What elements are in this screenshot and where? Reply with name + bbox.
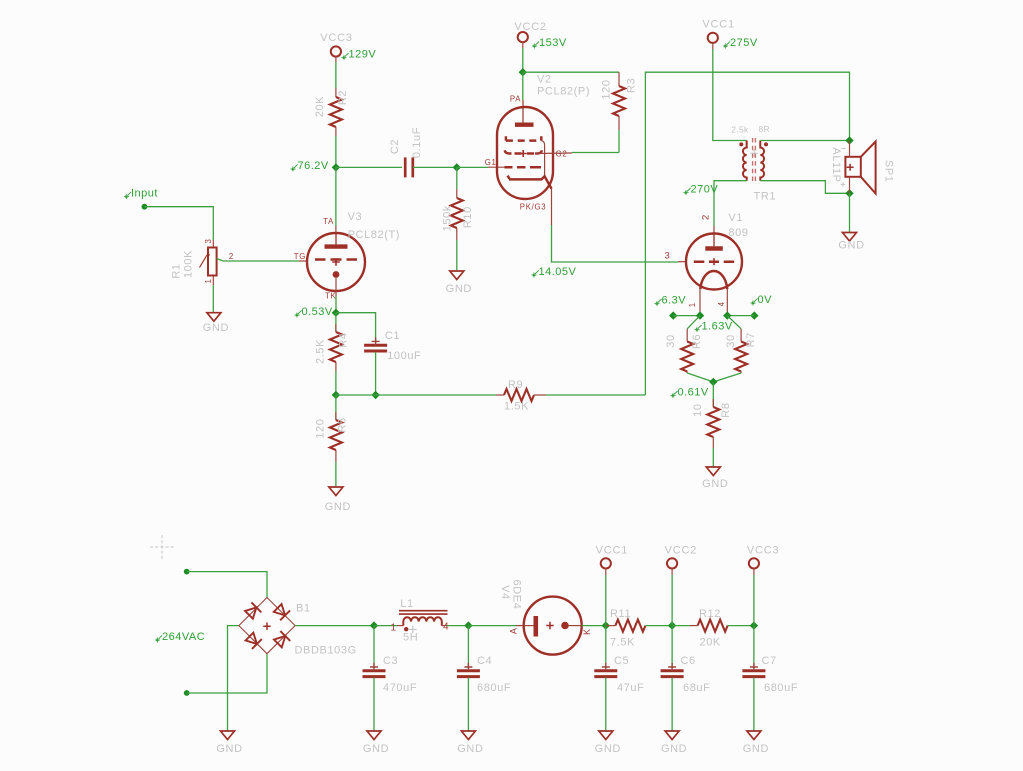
svg-text:2: 2 xyxy=(701,214,712,220)
V2 grid G1 row xyxy=(505,166,542,169)
svg-text:K: K xyxy=(582,628,592,635)
node 0V xyxy=(750,294,772,306)
V2 cathode pin lead xyxy=(551,189,553,225)
junction speaker top node xyxy=(845,136,853,144)
svg-text:VCC2: VCC2 xyxy=(514,21,547,33)
pin lead L1 pin1 xyxy=(397,625,403,627)
wire node to R10 xyxy=(456,167,458,189)
svg-text:GND: GND xyxy=(325,501,351,513)
svg-text:680uF: 680uF xyxy=(477,682,511,694)
resistor R9 xyxy=(504,389,534,401)
wire C3 to GND xyxy=(373,678,375,732)
diode B1 bottom-left xyxy=(245,632,262,649)
supply VCC3 output xyxy=(747,545,780,569)
svg-text:TR1: TR1 xyxy=(754,191,777,203)
svg-text:3: 3 xyxy=(204,238,213,243)
pin lead V1 pin3 xyxy=(678,261,686,263)
svg-text:AL11P: AL11P xyxy=(830,147,842,182)
V2 origin cross xyxy=(520,150,527,157)
svg-text:R11: R11 xyxy=(610,608,631,620)
wire R2 to node 76.2V xyxy=(335,136,337,167)
resistor R8 xyxy=(707,407,719,437)
svg-text:GND: GND xyxy=(363,743,389,755)
wire V3 cathode to node xyxy=(335,296,337,313)
wire C1 to node xyxy=(375,352,377,395)
pin lead R5 top xyxy=(335,412,337,420)
SP1 polarity small marks xyxy=(842,148,846,150)
wire node to C5 xyxy=(605,626,607,668)
svg-text:C2: C2 xyxy=(389,139,401,154)
svg-text:GND: GND xyxy=(702,478,728,490)
wire node to C3 xyxy=(373,626,375,668)
node 275V xyxy=(723,37,758,49)
supply VCC1 xyxy=(702,19,735,43)
svg-text:100uF: 100uF xyxy=(387,350,421,362)
V1 origin cross xyxy=(713,258,715,265)
node 0.61V xyxy=(670,387,709,399)
svg-text:V2: V2 xyxy=(537,74,552,86)
V4 anode plate xyxy=(533,616,538,637)
wire 6.3V stub xyxy=(673,315,700,317)
V1 grid row xyxy=(694,260,734,263)
svg-text:2.5K: 2.5K xyxy=(315,339,327,364)
node 153V xyxy=(532,37,567,49)
svg-text:7.5K: 7.5K xyxy=(610,636,635,648)
wire node to C6 xyxy=(671,626,673,668)
svg-text:5H: 5H xyxy=(403,632,418,644)
triode tube V3 envelope xyxy=(307,233,365,291)
pin lead V3 TA xyxy=(335,226,337,233)
node 6.3V xyxy=(654,295,686,307)
pin lead R6 bottom xyxy=(686,372,688,374)
resistor R12 xyxy=(698,620,728,632)
svg-text:TG: TG xyxy=(294,252,306,261)
svg-text:R6: R6 xyxy=(691,334,703,349)
svg-text:3: 3 xyxy=(665,251,671,262)
svg-text:GND: GND xyxy=(446,283,472,295)
svg-text:153V: 153V xyxy=(539,37,567,49)
svg-text:A: A xyxy=(509,627,519,634)
pin lead R4 top xyxy=(335,324,337,332)
L1 core lines xyxy=(399,611,448,614)
svg-text:C4: C4 xyxy=(477,655,492,667)
capacitor C5 xyxy=(594,663,617,677)
svg-text:0V: 0V xyxy=(758,294,773,306)
wire 0V stub xyxy=(727,315,754,317)
resistor R2 xyxy=(330,97,342,127)
svg-text:GND: GND xyxy=(457,743,483,755)
wire speaker to GND xyxy=(849,193,851,232)
V4 origin cross xyxy=(546,622,553,629)
capacitor C7 xyxy=(742,663,765,677)
wire R11 to VCC2 node xyxy=(645,625,672,627)
svg-text:100K: 100K xyxy=(183,250,195,278)
svg-text:30: 30 xyxy=(665,334,677,347)
node AC2 wire-end dot xyxy=(184,690,190,696)
svg-text:C7: C7 xyxy=(762,655,777,667)
node AC1 wire-end dot xyxy=(184,569,190,575)
resistor R3 xyxy=(613,86,625,116)
svg-text:120: 120 xyxy=(601,79,613,99)
svg-text:10: 10 xyxy=(692,403,704,416)
pin lead R2 top xyxy=(335,88,337,97)
junction VCC1 node xyxy=(602,621,610,629)
wire node to C4 xyxy=(467,626,469,668)
junction V1 pin1 xyxy=(696,311,704,319)
pentode tube V2 envelope xyxy=(497,107,553,199)
V2 G2 pin lead xyxy=(535,152,572,155)
supply VCC2 output xyxy=(665,545,698,569)
junction node 0.53V xyxy=(332,309,340,317)
resistor R5 xyxy=(330,420,342,450)
wire R10 to GND xyxy=(456,240,458,271)
svg-text:47uF: 47uF xyxy=(617,682,644,694)
svg-text:V4: V4 xyxy=(499,585,511,600)
resistor R7 xyxy=(735,342,747,372)
resistor R11 xyxy=(615,620,645,632)
junction C3 node xyxy=(370,621,378,629)
pin lead R10 top xyxy=(456,189,458,198)
pin lead R6 top xyxy=(686,329,688,342)
V2 grid G2 row xyxy=(505,150,542,153)
capacitor C6 xyxy=(661,663,684,677)
pin lead V2 PA xyxy=(522,100,524,123)
pin lead V1 pin2 xyxy=(713,226,715,234)
wire node to C1 xyxy=(336,313,376,341)
supply VCC2 xyxy=(514,21,547,42)
wire VCC3 to R2 xyxy=(335,62,337,88)
wire V1 pin1 to R6 xyxy=(687,316,700,329)
V3 cathode dot xyxy=(333,271,340,278)
pin lead R3 top xyxy=(618,72,620,86)
junction C4 node xyxy=(464,621,472,629)
svg-text:680uF: 680uF xyxy=(764,682,798,694)
V3 grid row xyxy=(315,258,357,261)
node 1.63V xyxy=(694,321,733,333)
wire AC2 to bridge bottom xyxy=(187,654,267,693)
V2 cathode xyxy=(508,176,552,189)
supply VCC3 xyxy=(320,32,353,57)
svg-text:C1: C1 xyxy=(385,330,400,342)
svg-text:8R: 8R xyxy=(759,124,770,134)
pin lead SP1 bottom xyxy=(849,177,851,194)
resistor R10 xyxy=(451,198,463,228)
svg-text:76.2V: 76.2V xyxy=(298,160,329,172)
wire Input to R1 xyxy=(144,207,213,240)
wire VCC1 to node xyxy=(605,575,607,626)
svg-text:B1: B1 xyxy=(296,603,311,615)
wire node to C2 xyxy=(336,166,402,168)
svg-text:120: 120 xyxy=(315,419,327,439)
svg-text:809: 809 xyxy=(728,227,748,239)
pin lead R2 bottom xyxy=(335,127,337,136)
svg-text:6.3V: 6.3V xyxy=(662,295,687,307)
pin lead V2 G1 xyxy=(488,166,505,168)
svg-text:0.53V: 0.53V xyxy=(302,306,333,318)
ground under C6 xyxy=(661,731,687,755)
capacitor C3 xyxy=(363,663,386,677)
wire VCC3 to node xyxy=(753,575,755,626)
capacitor C4 xyxy=(457,663,480,677)
node 0V wire-end dot xyxy=(750,311,758,319)
svg-text:R8: R8 xyxy=(720,402,732,417)
node Input wire-end dot xyxy=(142,204,148,210)
svg-text:4: 4 xyxy=(717,301,726,306)
svg-text:VCC2: VCC2 xyxy=(665,545,698,557)
svg-text:Input: Input xyxy=(131,188,158,200)
speaker SP1 xyxy=(845,142,875,194)
pin lead R1 pin1 xyxy=(212,276,214,286)
B1 plus mark xyxy=(263,623,270,630)
svg-text:R4: R4 xyxy=(338,332,350,347)
ground under R10 xyxy=(446,271,472,295)
junction node 76.2V xyxy=(332,163,340,171)
svg-text:R9: R9 xyxy=(508,379,523,391)
svg-text:GND: GND xyxy=(661,743,687,755)
wire node to C7 xyxy=(753,626,755,668)
wire TR1 secondary top to speaker xyxy=(760,140,849,142)
pin lead R8 top xyxy=(712,399,714,407)
pin lead V4 A xyxy=(516,625,524,627)
svg-text:R5: R5 xyxy=(337,417,349,432)
svg-text:G2: G2 xyxy=(556,150,568,159)
svg-text:VCC1: VCC1 xyxy=(596,545,629,557)
ground under C7 xyxy=(743,731,769,755)
resistor R6 xyxy=(681,342,693,372)
wire V1 pin4 to R7 xyxy=(727,316,741,329)
svg-text:68uF: 68uF xyxy=(683,682,710,694)
diode B1 bottom-right xyxy=(273,631,290,648)
pin lead R7 top xyxy=(740,329,742,342)
transformer TR1 primary winding xyxy=(743,141,747,181)
svg-text:PCL82(P): PCL82(P) xyxy=(537,86,590,98)
svg-text:1.63V: 1.63V xyxy=(702,321,733,333)
pin lead VCC1 output xyxy=(605,568,607,575)
ground under C4 xyxy=(457,731,483,755)
svg-text:G1: G1 xyxy=(485,158,497,167)
svg-text:R2: R2 xyxy=(337,90,349,105)
node 270V xyxy=(683,184,718,196)
wire VCC2 node to R3 top xyxy=(523,71,619,73)
svg-text:GND: GND xyxy=(595,743,621,755)
V2 G3 to cathode link xyxy=(541,141,544,177)
capacitor C2 xyxy=(405,157,413,177)
wire node to R5 xyxy=(335,395,337,420)
rectifier tube V4 envelope xyxy=(524,597,582,655)
wire V2 G2 to R3 bottom xyxy=(572,152,619,154)
wire V2 cathode to V1 grid xyxy=(552,225,679,262)
V4 cathode dot xyxy=(561,622,569,630)
svg-text:TA: TA xyxy=(323,217,334,226)
pin lead V1 pin4 xyxy=(726,289,728,316)
wire node to R8 xyxy=(712,382,714,407)
SP1 plus mark xyxy=(847,164,854,171)
wire C4 to GND xyxy=(467,678,469,732)
supply VCC1 output xyxy=(596,545,629,569)
pin lead VCC2 xyxy=(522,42,524,48)
svg-text:V3: V3 xyxy=(348,211,363,223)
svg-text:20K: 20K xyxy=(314,96,326,117)
wire bridge plus to C3 node xyxy=(295,625,374,627)
wire VCC2 node to V2 anode xyxy=(522,72,524,100)
junction VCC2 node xyxy=(519,68,527,76)
TR1 polarity dots xyxy=(739,142,743,146)
inductor L1 xyxy=(403,617,442,626)
wire TR1 secondary bottom to speaker xyxy=(760,181,846,194)
svg-text:GND: GND xyxy=(743,743,769,755)
svg-text:R12: R12 xyxy=(699,608,721,620)
svg-text:SP1: SP1 xyxy=(883,160,895,183)
wire VCC2 node to R12 xyxy=(672,625,690,627)
wire C2 to node G1 xyxy=(413,166,457,168)
ground under C3 xyxy=(363,731,389,755)
pin lead R8 bottom xyxy=(712,437,714,448)
svg-text:470uF: 470uF xyxy=(383,682,417,694)
pin lead R11 left xyxy=(606,625,616,627)
wire R12 to VCC3 node xyxy=(728,625,754,627)
wire bridge minus to GND xyxy=(228,626,239,731)
pin lead R3 bottom xyxy=(618,116,620,130)
pin lead R7 bottom xyxy=(740,372,742,374)
ground under R1 xyxy=(203,313,229,335)
ground under C5 xyxy=(595,731,621,755)
pin lead V3 TG xyxy=(299,260,307,262)
junction node 0.61V xyxy=(709,378,717,386)
node 14.05V xyxy=(531,266,576,278)
L1 polarity dot xyxy=(404,627,408,631)
node 129V xyxy=(341,49,376,61)
junction speaker bottom node xyxy=(845,189,853,197)
pin lead L1 pin4 xyxy=(442,625,447,627)
wire V4 cathode to VCC1 node xyxy=(582,625,606,627)
wire C7 to GND xyxy=(753,678,755,732)
svg-text:PA: PA xyxy=(510,94,521,103)
svg-text:270V: 270V xyxy=(691,184,719,196)
svg-text:0.1uF: 0.1uF xyxy=(411,127,423,158)
wire L1 to C4 node xyxy=(447,625,468,627)
wire R6 to node 0.61V xyxy=(687,373,713,382)
svg-text:DBDB103G: DBDB103G xyxy=(295,645,357,657)
wire node to V2 G1 xyxy=(457,166,488,168)
sheet origin crosshair xyxy=(150,535,174,559)
wire R4 node to C1 node xyxy=(336,394,376,396)
svg-text:R7: R7 xyxy=(745,332,757,347)
ground under SP1 xyxy=(838,233,864,252)
V1 anode plate xyxy=(705,246,723,250)
node 6.3V wire-end dot xyxy=(669,311,677,319)
svg-text:R10: R10 xyxy=(462,206,474,228)
svg-text:GND: GND xyxy=(838,240,864,252)
wire R5 to GND xyxy=(335,462,337,487)
pin lead R9 right xyxy=(534,394,546,396)
svg-text:264VAC: 264VAC xyxy=(162,631,205,643)
pin lead R10 bottom xyxy=(456,228,458,240)
wire node to V4 anode xyxy=(468,625,516,627)
pin lead VCC3 xyxy=(335,56,337,62)
svg-text:1.5K: 1.5K xyxy=(504,401,529,413)
wire C5 to GND xyxy=(605,678,607,732)
wire R4 to node xyxy=(335,371,337,395)
ground under R8 xyxy=(702,467,728,490)
wire C6 to GND xyxy=(671,678,673,732)
wire node to R9 xyxy=(376,394,496,396)
junction node G1/R10 xyxy=(453,163,461,171)
wire feedback R9 to speaker node xyxy=(645,72,849,395)
pin lead VCC2 output xyxy=(671,568,673,575)
svg-text:V1: V1 xyxy=(728,212,743,224)
transformer TR1 secondary winding xyxy=(760,141,764,181)
svg-text:14.05V: 14.05V xyxy=(539,266,577,278)
wire VCC2 to node xyxy=(671,575,673,626)
L1 origin cross xyxy=(409,626,417,634)
svg-text:1: 1 xyxy=(688,302,697,307)
pin lead VCC3 output xyxy=(753,568,755,575)
svg-text:6DE4: 6DE4 xyxy=(511,580,523,610)
svg-text:150k: 150k xyxy=(442,205,454,231)
wire R1 to GND xyxy=(212,285,214,313)
V3 anode plate xyxy=(325,244,348,248)
resistor R4 xyxy=(330,332,342,362)
wire VCC1 to TR1 primary xyxy=(713,49,747,141)
node 0.53V xyxy=(294,306,333,318)
wire node to V3 anode xyxy=(335,167,337,226)
junction V1 pin4 xyxy=(723,311,731,319)
wire R1 wiper to V3 grid xyxy=(217,259,299,262)
pin lead VCC1 xyxy=(712,43,714,49)
svg-text:1: 1 xyxy=(391,623,397,634)
V2 grid G3 row xyxy=(506,136,541,140)
svg-text:2.5k: 2.5k xyxy=(731,125,749,135)
svg-text:275V: 275V xyxy=(730,37,758,49)
svg-text:0.61V: 0.61V xyxy=(678,387,709,399)
junction C1/R9 node xyxy=(371,391,379,399)
svg-text:1: 1 xyxy=(204,278,213,283)
wire R9 to feedback xyxy=(546,394,645,396)
svg-text:VCC3: VCC3 xyxy=(747,545,780,557)
TR1 origin cross xyxy=(750,149,758,157)
svg-text:C5: C5 xyxy=(614,655,629,667)
svg-text:GND: GND xyxy=(216,743,242,755)
wire node to L1 xyxy=(374,625,397,627)
pin lead R12 left xyxy=(690,625,698,627)
node 264VAC xyxy=(155,631,205,643)
svg-text:129V: 129V xyxy=(349,49,377,61)
pin lead SP1 top xyxy=(849,141,851,157)
pin lead R5 bottom xyxy=(335,450,337,462)
wire TR1 primary to V1 anode xyxy=(714,181,747,226)
pin lead R4 bottom xyxy=(335,362,337,371)
bridge rectifier B1 outline xyxy=(239,598,295,654)
svg-text:20K: 20K xyxy=(700,636,721,648)
svg-text:R3: R3 xyxy=(626,78,638,93)
wire AC1 to bridge top xyxy=(187,572,267,598)
triode tube V1 envelope xyxy=(686,234,742,290)
svg-text:C3: C3 xyxy=(383,655,398,667)
wire VCC2 to junction xyxy=(522,48,524,72)
node 76.2V xyxy=(290,160,329,172)
pin lead R9 left xyxy=(496,394,504,396)
pin lead R1 pin3 xyxy=(212,240,214,247)
svg-text:PK/G3: PK/G3 xyxy=(520,202,546,211)
svg-text:VCC3: VCC3 xyxy=(320,32,353,44)
V3 origin cross xyxy=(332,258,339,265)
pin lead V1 pin1 xyxy=(699,289,701,316)
svg-text:PCL82(T): PCL82(T) xyxy=(348,229,400,241)
diode B1 top-left xyxy=(244,602,261,619)
V1 filament xyxy=(700,271,727,289)
svg-text:C6: C6 xyxy=(681,655,696,667)
diode B1 top-right xyxy=(273,603,290,620)
